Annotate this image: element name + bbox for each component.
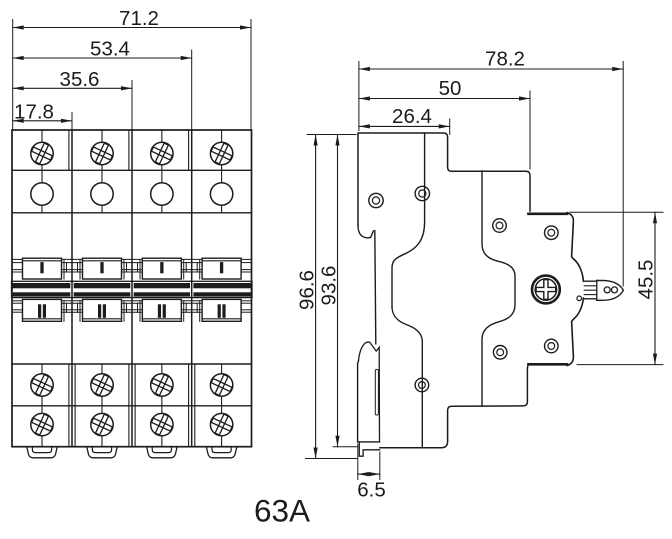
side view: internal edge A (upper)	[392, 133, 425, 307]
side view: terminal blade with contact dots	[583, 280, 623, 300]
svg-text:45.5: 45.5	[634, 260, 657, 300]
side hole 5 (lower-left)	[415, 378, 429, 392]
side view: small pin near terminal	[577, 296, 582, 301]
side hole 1 (upper-left)	[369, 193, 383, 207]
dimension 26.4	[359, 105, 450, 129]
side view: upper mounting ear	[529, 213, 584, 281]
side hole 7 (ear bottom)	[545, 339, 559, 353]
side hole 3 (mid)	[493, 219, 507, 233]
front view: breaker body outline	[12, 130, 252, 447]
side ext line left (x=359)	[358, 62, 360, 131]
svg-text:35.6: 35.6	[60, 68, 100, 91]
front view: handle side ears (upper)	[12, 259, 252, 279]
svg-text:26.4: 26.4	[392, 105, 432, 128]
side hole 2 (upper-mid)	[415, 186, 429, 200]
front view pole 4: bottom terminal screws	[208, 364, 236, 447]
front view pole 2: bottom mounting tab	[87, 448, 117, 458]
side view: internal edge B with bulge	[482, 171, 515, 406]
right ext line bottom	[577, 364, 663, 366]
front view pole 3: handle upper block with I mark	[142, 258, 181, 279]
svg-text:50: 50	[439, 77, 462, 100]
right ext line top	[570, 211, 663, 213]
front view pole 4: top terminal screw and button	[208, 130, 236, 213]
side view: left edge notch	[358, 226, 376, 344]
side ext line x=623	[622, 62, 624, 287]
side ext line x=530	[529, 91, 531, 169]
extension line at divider 2	[131, 81, 133, 130]
extension line right (x=251)	[250, 20, 252, 130]
front view pole 3: bottom terminal screws	[148, 364, 176, 447]
front view: handle side ears (lower)	[12, 301, 252, 322]
dimension 6.5	[357, 472, 386, 502]
front view: line below test-button row	[12, 212, 252, 214]
extension line at divider 3	[191, 50, 193, 129]
svg-text:17.8: 17.8	[14, 100, 54, 123]
left ext line top	[307, 134, 356, 136]
side ext line x=449.7	[449, 119, 451, 135]
front view: line below top screw row	[12, 169, 252, 171]
front view pole 1: handle lower block with II mark	[23, 299, 62, 321]
front view pole 1: handle upper block with I mark	[23, 258, 62, 279]
front view: pole divider 1	[71, 130, 73, 447]
side hole 4 (ear top)	[545, 226, 559, 240]
front view pole 1: bottom terminal screws	[28, 364, 56, 447]
side view: DIN rail clip	[358, 342, 380, 456]
svg-text:6.5: 6.5	[357, 479, 386, 502]
side view: handle-axis phillips screw	[532, 276, 560, 304]
dimension 96.6	[296, 135, 319, 459]
side view: top outline (roof steps)	[358, 133, 530, 226]
front view pole 4: bottom mounting tab	[207, 448, 237, 458]
left ext line bottom (96.6)	[306, 458, 358, 460]
front view pole 2: handle lower block with II mark	[83, 299, 122, 321]
6.5 ext line right	[379, 452, 381, 480]
6.5 ext line left	[357, 444, 359, 480]
front view: handle tie bar	[12, 281, 253, 297]
dimension 78.2	[359, 48, 623, 72]
side view: lower-right outline	[380, 365, 529, 448]
dimension 35.6	[13, 68, 132, 91]
dimension 17.8	[13, 100, 72, 123]
svg-text:96.6: 96.6	[296, 270, 319, 310]
front view pole 1: top terminal screw and button	[28, 130, 56, 213]
svg-text:63A: 63A	[254, 493, 310, 529]
dimension 71.2	[13, 7, 251, 30]
front view: line above lower screw rows	[12, 363, 252, 365]
front view: pole divider 3	[191, 130, 193, 447]
svg-text:93.6: 93.6	[317, 266, 340, 306]
extension line left (x=12.7)	[12, 20, 14, 130]
front view pole 3: top terminal screw and button	[148, 130, 176, 213]
label 63A	[254, 493, 310, 529]
front view: line between lower screw rows	[12, 405, 252, 407]
front view pole 2: top terminal screw and button	[88, 130, 116, 213]
extension line at divider 1	[71, 113, 73, 130]
svg-text:78.2: 78.2	[485, 48, 525, 71]
front view pole 1: bottom mounting tab	[27, 448, 57, 458]
front view pole 3: handle lower block with II mark	[142, 299, 181, 321]
dimension 50	[359, 77, 530, 101]
front view: terminal box inner edges	[69, 130, 195, 447]
dimension 53.4	[13, 38, 192, 61]
front view pole 4: handle upper block with I mark	[202, 258, 241, 279]
svg-text:71.2: 71.2	[119, 7, 159, 30]
svg-text:53.4: 53.4	[90, 38, 130, 61]
side view: lower mounting ear	[529, 298, 584, 365]
front view pole 4: handle lower block with II mark	[202, 299, 241, 321]
front view pole 3: bottom mounting tab	[147, 448, 177, 458]
front view pole 2: bottom terminal screws	[88, 364, 116, 447]
dimension 93.6	[317, 135, 340, 447]
dimension 45.5	[634, 212, 657, 364]
side view: internal edge A (lower)	[392, 307, 422, 448]
93.6 baseline extension	[333, 446, 358, 448]
side hole 6 (lower-mid)	[493, 346, 507, 360]
front view: pole divider 2	[131, 130, 133, 447]
front view pole 2: handle upper block with I mark	[83, 258, 122, 279]
